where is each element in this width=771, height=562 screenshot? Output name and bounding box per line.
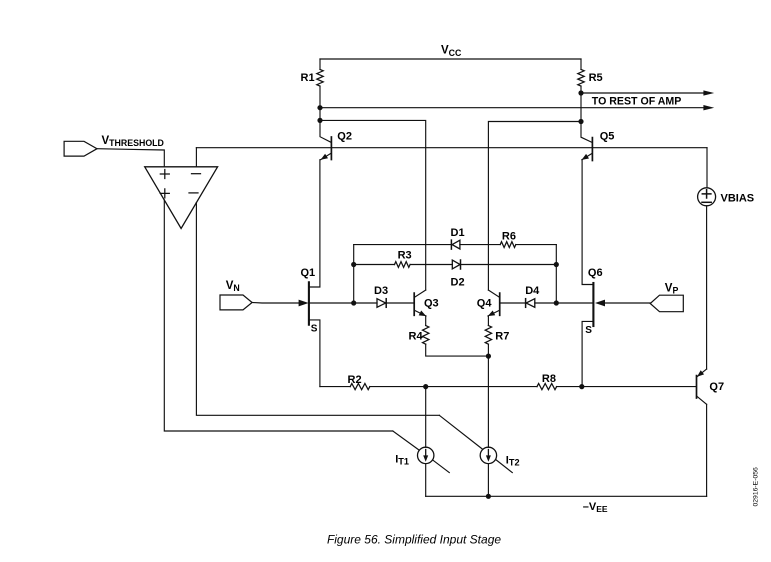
svg-text:Q2: Q2: [337, 131, 352, 143]
wire node to Q4 collector column: [488, 122, 581, 291]
plus row1: [160, 170, 169, 179]
svg-text:02916-E-056: 02916-E-056: [753, 467, 760, 507]
wire node to node: [319, 108, 321, 121]
wire Q4 base to D4: [500, 302, 526, 304]
svg-text:TO REST OF AMP: TO REST OF AMP: [592, 96, 681, 108]
transistor Q7: [697, 369, 707, 404]
connector VN: [220, 295, 252, 310]
op-amp U1 comparator: [145, 167, 218, 229]
wire comparator output left to IT1 switch: [164, 200, 392, 431]
resistor R6: [500, 242, 516, 248]
diode D1: [451, 240, 460, 249]
wire VTHRESHOLD to comparator: [97, 149, 164, 167]
label S of Q1: [311, 324, 318, 335]
current source IT1: [418, 447, 434, 463]
node rail IT1: [423, 384, 428, 389]
current source IT2: [480, 447, 496, 463]
svg-text:Q6: Q6: [588, 267, 603, 279]
svg-text:Q4: Q4: [477, 297, 493, 309]
transistor Q6 JFET: [582, 160, 593, 387]
transistor Q1 JFET: [309, 160, 320, 387]
resistor R4: [423, 326, 429, 345]
wire to-rest-of-amp lower: [320, 107, 704, 109]
wire tail rail R2 R8: [320, 386, 696, 388]
wire rail to IT1: [425, 387, 427, 448]
svg-text:R5: R5: [589, 72, 603, 84]
svg-text:D3: D3: [374, 285, 388, 297]
svg-text:VBIAS: VBIAS: [721, 192, 755, 204]
svg-text:R6: R6: [502, 231, 516, 243]
wire VCC to R5: [580, 59, 582, 69]
node gate row right: [554, 300, 559, 305]
node Q5 collector net: [578, 119, 583, 124]
svg-text:D4: D4: [525, 285, 540, 297]
diode D2: [452, 260, 460, 269]
transistor Q4: [488, 290, 500, 316]
wire comparator base line: [196, 147, 707, 149]
resistor R8: [537, 384, 557, 390]
wire switch arm IT2: [439, 415, 512, 472]
wire right cross-couple vertical: [555, 245, 557, 303]
diode D4: [526, 299, 535, 308]
svg-text:D1: D1: [451, 227, 465, 239]
svg-text:R2: R2: [348, 374, 362, 386]
wire to-rest-of-amp upper: [581, 92, 704, 94]
label S of Q6: [585, 325, 592, 336]
resistor R7: [485, 326, 491, 345]
node R1 lower: [317, 105, 322, 110]
node gate row left: [351, 300, 356, 305]
wire base line to VBIAS: [706, 148, 708, 188]
wire VP to Q6 gate: [605, 302, 650, 304]
wire node to node right: [580, 93, 582, 122]
resistor R3: [395, 262, 411, 268]
svg-text:R3: R3: [398, 250, 412, 262]
wire IT1 to VEE rail: [425, 464, 427, 497]
wire Q3 emitter to R4: [425, 316, 427, 326]
node left R3 row: [351, 262, 356, 267]
resistor R1: [317, 69, 323, 86]
transistor Q2: [320, 120, 331, 159]
wire comparator output right to IT2 switch: [196, 203, 439, 416]
node R5 lower: [578, 90, 583, 95]
wire R3 D2 row: [354, 264, 557, 266]
resistor R5: [578, 69, 584, 86]
wire node to Q3 collector column: [320, 120, 426, 290]
wire VN to Q1 gate: [252, 302, 299, 305]
svg-text:S: S: [311, 324, 318, 335]
svg-text:S: S: [585, 325, 592, 336]
svg-text:Q7: Q7: [709, 381, 724, 393]
node IT2 VEE: [486, 494, 491, 499]
svg-text:Q1: Q1: [301, 267, 316, 279]
wire VBIAS to Q7 emitter: [706, 206, 708, 369]
wire VCC to R1: [319, 59, 321, 69]
wire node to Q6 gate: [556, 302, 593, 304]
wire node to D3: [354, 302, 377, 304]
svg-text:R7: R7: [495, 331, 509, 343]
transistor Q3: [414, 290, 426, 316]
wire left cross-couple vertical: [353, 245, 355, 303]
wire D1 R6 row: [354, 244, 557, 246]
label -VEE: [583, 501, 608, 514]
wire Q4 emitter to R7: [487, 316, 489, 326]
label TO REST OF AMP: [592, 96, 681, 108]
minus row1: [192, 173, 201, 175]
svg-text:Figure 56. Simplified Input St: Figure 56. Simplified Input Stage: [327, 533, 501, 547]
label VCC: [441, 45, 462, 58]
node rail Q6 source: [579, 384, 584, 389]
wire VCC rail: [320, 58, 581, 60]
node right R3 row: [554, 262, 559, 267]
resistor R2: [350, 384, 370, 390]
plus row2: [160, 189, 169, 198]
wire Q7 collector to VEE: [706, 404, 708, 496]
wire switch arm IT1: [393, 431, 450, 473]
svg-text:R8: R8: [542, 373, 556, 385]
transistor Q5: [581, 122, 592, 161]
wire join node down to IT2: [487, 356, 489, 447]
connector VP: [650, 295, 683, 312]
node Q2 collector net: [317, 118, 322, 123]
wire Q1 gate to node: [309, 302, 354, 304]
wire R4 to join node: [426, 344, 489, 356]
wire IT2 to VEE rail: [487, 464, 489, 497]
node R4 R7 join: [486, 354, 491, 359]
wire -VEE rail: [426, 495, 707, 497]
svg-text:Q3: Q3: [424, 297, 439, 309]
svg-text:R4: R4: [409, 331, 424, 343]
wire R5 to node: [580, 86, 582, 93]
connector VTHRESHOLD: [64, 141, 97, 156]
minus row2: [189, 192, 198, 194]
wire R7 to join node: [487, 344, 489, 356]
wire D4 to node: [535, 302, 557, 304]
voltage source VBIAS: [698, 188, 716, 206]
wire D3 to Q3 base: [386, 302, 413, 304]
svg-text:Q5: Q5: [600, 131, 615, 143]
wire R1 to node: [319, 86, 321, 108]
wire comparator minus input: [195, 148, 197, 167]
svg-text:R1: R1: [301, 72, 315, 84]
diode D3: [377, 299, 386, 308]
svg-text:D2: D2: [451, 276, 465, 288]
